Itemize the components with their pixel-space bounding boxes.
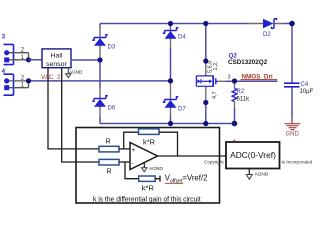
ground GND xyxy=(285,124,301,138)
resistor k*R offset xyxy=(139,176,156,181)
wire D2 pins xyxy=(248,23,284,25)
value CSD13202Q2 xyxy=(228,59,268,66)
node bottom rail R2 junction xyxy=(232,121,238,127)
svg-text:k is the differential gain of: k is the differential gain of this circu… xyxy=(93,197,201,204)
node Hall bridge junction xyxy=(97,57,102,62)
red pin mark on ADC xyxy=(233,140,235,142)
svg-text:VAC_2: VAC_2 xyxy=(41,74,61,81)
wire Hall sensor to bridge node xyxy=(71,59,100,61)
wire J3 pin2 xyxy=(9,53,29,60)
text copyright line xyxy=(204,159,313,165)
pin number 1 of J4 xyxy=(21,83,25,89)
svg-text:D2: D2 xyxy=(263,32,271,38)
Hall sensor box xyxy=(42,49,71,68)
wire NMOS_Dri net stub xyxy=(235,80,278,82)
ground AGND of op-amp xyxy=(142,166,164,172)
wire R bottom to op-amp xyxy=(119,161,130,163)
wire bottom rail xyxy=(100,123,235,125)
node top rail Q2 junction xyxy=(203,21,208,26)
svg-text:CSD13202Q2: CSD13202Q2 xyxy=(228,59,268,66)
label R2 xyxy=(237,89,245,95)
pin label 4,7 xyxy=(212,91,218,99)
svg-text:R: R xyxy=(107,168,112,175)
label R bottom xyxy=(107,168,112,175)
node bottom rail Q2 junction xyxy=(203,121,208,126)
diode D7 xyxy=(163,97,179,108)
svg-text:ADC(0-Vref): ADC(0-Vref) xyxy=(230,150,276,160)
ground AGND of ADC xyxy=(246,172,269,180)
diode D4 xyxy=(163,28,179,39)
wire Q2 drain column xyxy=(205,24,207,76)
top rail wire xyxy=(100,23,292,25)
resistor R2 xyxy=(232,88,237,101)
wire Hall output A xyxy=(48,68,99,149)
node top rail C4 junction xyxy=(289,21,295,27)
svg-text:D3: D3 xyxy=(108,45,116,51)
label D3 xyxy=(108,45,116,51)
wire J3 to Hall sensor xyxy=(29,59,43,61)
node J3 junction xyxy=(26,57,31,62)
wire J3 pin1 xyxy=(9,59,29,61)
wire J4 pin1 xyxy=(9,81,29,88)
net label VAC_2 xyxy=(41,74,61,81)
svg-text:Hall: Hall xyxy=(50,52,62,59)
wire D4/D7 column xyxy=(170,24,172,124)
pin number 2 of J4 xyxy=(21,76,25,82)
svg-text:k*R: k*R xyxy=(142,184,155,193)
label Voffset equals Vref/2 xyxy=(165,174,208,185)
label D7 xyxy=(178,107,186,113)
node bottom rail D7 junction xyxy=(168,121,173,126)
svg-text:k*R: k*R xyxy=(143,137,156,146)
node J4 junction xyxy=(26,78,31,83)
svg-text:AGND: AGND xyxy=(69,70,83,75)
wire VAC_2 mid rail xyxy=(29,80,171,82)
wire feedback left vertical xyxy=(124,132,139,149)
wire op-amp AGND pin xyxy=(143,163,145,168)
wire Q2 gate to R2 node xyxy=(218,80,235,82)
node mid rail D4 junction xyxy=(168,78,173,83)
resistor k*R feedback xyxy=(139,129,160,135)
node Q2 drain pin xyxy=(203,58,208,63)
svg-text:10µF: 10µF xyxy=(300,89,314,95)
wire Voffset branch xyxy=(125,162,139,179)
node gate R2 junction xyxy=(232,78,237,83)
svg-text:-: - xyxy=(132,160,134,167)
svg-text:GND: GND xyxy=(286,132,300,138)
label k*R feedback xyxy=(143,137,156,146)
op-amp block frame xyxy=(76,128,220,204)
pin number 2 of J3 xyxy=(21,48,25,54)
label C4 xyxy=(301,82,309,88)
ADC block xyxy=(226,142,280,169)
pin label 5,6,8 xyxy=(208,61,214,73)
label D4 xyxy=(178,35,186,41)
wire Hall AGND pin xyxy=(67,68,69,74)
svg-text:511k: 511k xyxy=(237,96,251,102)
resistor R bottom input xyxy=(99,159,119,165)
wire ADC AGND pin xyxy=(248,169,250,175)
connector J3 xyxy=(4,44,14,64)
svg-text:D4: D4 xyxy=(178,35,186,41)
svg-text:AGND: AGND xyxy=(255,172,269,178)
svg-text:+: + xyxy=(132,147,136,154)
transistor Q2 NMOS with body diode xyxy=(196,76,218,87)
svg-text:4: 4 xyxy=(2,68,6,75)
svg-text:sensor: sensor xyxy=(46,61,68,68)
label Q2 xyxy=(229,53,238,60)
pin number 1 of J3 xyxy=(21,55,25,61)
net label NMOS_Dri xyxy=(241,74,278,81)
wire R top to op-amp xyxy=(119,148,130,150)
svg-text:ts Incorporated: ts Incorporated xyxy=(282,160,313,165)
svg-text:3: 3 xyxy=(228,75,231,81)
value 511k xyxy=(237,96,251,102)
value 10uF xyxy=(300,89,314,95)
svg-text:C4: C4 xyxy=(301,82,309,88)
ground AGND of Hall sensor xyxy=(66,70,83,78)
pin label 3 gate xyxy=(228,75,231,81)
wire R2 column xyxy=(234,81,236,124)
label R top xyxy=(106,139,111,146)
wire J4 pin2 xyxy=(9,80,29,82)
svg-text:R2: R2 xyxy=(237,89,245,95)
op-amp U1 xyxy=(130,143,158,170)
node Q2 source pin xyxy=(203,100,208,105)
svg-text:4,7: 4,7 xyxy=(212,91,218,99)
resistor R top input xyxy=(99,146,119,152)
label k*R offset xyxy=(142,184,155,193)
capacitor C4 xyxy=(284,83,300,87)
svg-text:R: R xyxy=(106,139,111,146)
svg-text:AGND: AGND xyxy=(149,166,163,172)
connector J4 xyxy=(4,74,14,95)
node top rail D4 junction xyxy=(168,21,173,26)
label D6 xyxy=(108,106,116,112)
wire Q2 source column xyxy=(205,86,207,123)
svg-text:D7: D7 xyxy=(178,107,186,113)
wire to Voffset terminal xyxy=(155,176,160,182)
wire Hall output B xyxy=(62,68,99,162)
wire D3/D6 column xyxy=(99,24,101,124)
label connector 4 xyxy=(2,68,6,75)
text k gain note xyxy=(93,197,201,204)
diode D3 xyxy=(92,35,108,46)
pin label 1,2 xyxy=(213,61,219,71)
svg-text:1,2,: 1,2, xyxy=(213,61,219,71)
wire feedback right to output xyxy=(159,132,178,156)
svg-text:3: 3 xyxy=(2,34,6,41)
wire op-amp output to ADC xyxy=(158,155,227,157)
diode D6 xyxy=(92,96,108,107)
wire C4 column xyxy=(291,24,293,124)
label D2 xyxy=(263,32,271,38)
svg-text:D6: D6 xyxy=(108,106,116,112)
label connector 3 xyxy=(2,34,6,41)
diode D2 xyxy=(263,19,277,29)
